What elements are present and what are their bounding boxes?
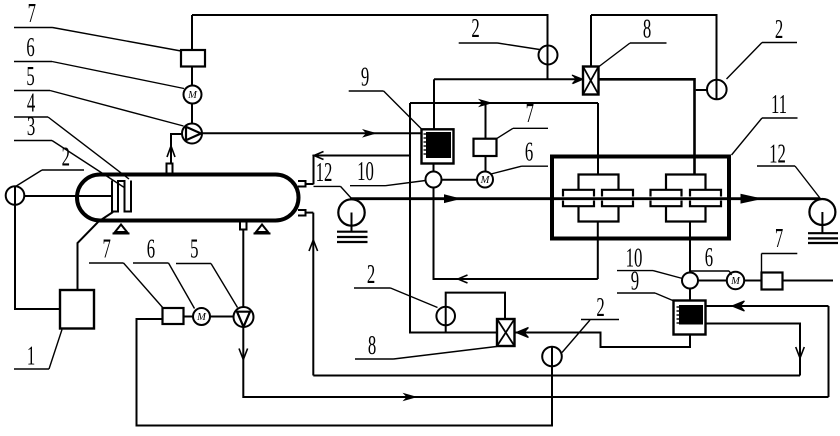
wire circle 2c to valve 8b top [446,293,505,319]
wire valve 8a to engine group 2 (hot) [599,79,695,174]
label 5 bottom [190,233,198,263]
wire tank nozzle B stub [306,212,314,214]
svg-text:2: 2 [471,13,479,43]
wire engine group2 return down to sensor 10b [689,222,691,273]
svg-text:M: M [730,276,741,287]
label 12 left [316,157,333,187]
wire stub circle 2b to hot line [696,89,707,91]
wire heater 9b bottom to valve 8b [515,333,691,348]
svg-text:7: 7 [775,223,783,253]
svg-text:2: 2 [367,259,375,289]
wire heater 9b out right [706,324,801,376]
svg-text:5: 5 [190,233,198,263]
thermometer circle 2b [707,80,727,100]
svg-text:M: M [187,90,198,101]
wire engine group1 return down [597,222,599,280]
arrow right on pump outlet line [362,129,377,138]
label 8 bottom [368,330,376,360]
svg-text:6: 6 [705,242,713,272]
dynamometer 12b [809,199,835,225]
engine group 2 bracket [666,175,706,190]
solenoid box 7b [762,273,783,290]
wire box 7a2 to meter 6a2 [485,156,487,172]
svg-text:8: 8 [643,13,651,43]
label 4 [27,87,35,117]
label 6 middle [525,136,533,166]
svg-text:9: 9 [361,61,369,91]
wire return y279 to sensor 10a [434,188,598,280]
flowmeter M 6a [184,86,202,104]
wire pump 5c outlet down [243,327,828,397]
svg-text:2: 2 [62,141,70,171]
label 2 left [62,141,70,171]
arrow up on riser [309,240,318,251]
engine cylinder 1b [602,190,633,197]
wire stub box7a top [191,15,193,50]
svg-text:2: 2 [596,292,604,322]
svg-text:7: 7 [526,98,534,128]
arrow left on y155 [314,152,324,160]
wire heater 9b in from right [706,305,829,307]
engine group 2 lower bracket [666,206,706,221]
arrow down on x800 [796,347,805,358]
engine cylinder 1a [563,190,594,197]
svg-text:3: 3 [27,111,35,141]
wire meter 6a to pump 5a [191,104,193,124]
label 11 [771,89,787,119]
svg-text:1: 1 [27,340,35,370]
svg-text:7: 7 [28,0,36,28]
svg-text:10: 10 [357,156,374,186]
shaft arrow right [741,194,764,204]
heating coil 3 inside tank [112,181,131,212]
label 9 right [631,265,639,295]
thermometer circle 2d [542,347,562,367]
wire sensor 10b to meter 6b [698,280,727,282]
engine box 11 [552,157,729,239]
tank vessel [77,175,299,221]
wire heater 9a bottom to sensor 10a [433,164,435,172]
svg-text:11: 11 [771,89,787,119]
engine group 1 lower bracket [579,206,619,221]
heater box 9a [422,129,454,163]
sensor circle 10b [682,273,698,289]
wire box 7c line left and to bottom [137,319,553,426]
svg-text:12: 12 [769,138,786,168]
flowmeter M 6b [727,272,744,289]
svg-text:9: 9 [631,265,639,295]
wire meter 6b to box 7b [744,280,761,282]
svg-text:6: 6 [147,233,155,263]
svg-text:M: M [480,175,491,186]
wire riser into tank nozzle B [312,213,314,376]
pump 5a [182,124,202,144]
tank nozzle A [298,181,306,187]
tank support foot left [115,225,127,233]
label 6 right [705,242,713,272]
label 8 top [643,13,651,43]
thermometer circle 2a [539,46,558,65]
label 3 [27,111,35,141]
flowmeter M 6c [193,308,210,325]
svg-text:6: 6 [525,136,533,166]
svg-text:2: 2 [775,14,783,44]
wire circle 2e down to box 1 [15,205,60,309]
wire tank bottom to pump 5c [242,230,244,308]
wire junction down into heater 9a top [433,79,435,129]
svg-text:7: 7 [103,233,111,263]
shaft arrow left [444,194,462,203]
label 7 middle [526,98,534,128]
thermometer circle 2e [6,186,25,205]
arrow up into pump inlet [167,146,175,157]
wire box7a to meter 6a [191,67,193,86]
label 10 left [357,156,374,186]
heater box 9b [674,301,706,335]
pump 5c [234,307,254,327]
tank bottom nozzle [240,223,247,230]
wire top line B [591,15,717,99]
wire box 7b right [783,280,834,282]
label 2 top middle [471,13,479,43]
wire valve 8a top feed [590,15,592,67]
wire sensor 10b to heater 9b [689,289,691,301]
sensor circle 10a [426,172,442,188]
label 2 top right [775,14,783,44]
tank nozzle B [298,210,306,216]
wire box 7a2 stub top [485,103,487,139]
label 7 right [775,223,783,253]
arrow right on y103 [478,99,493,108]
label 2 middle low [367,259,375,289]
wire long vertical x410 [410,103,497,333]
wire sensor 10a to meter 6a2 [442,179,478,181]
solenoid box 7a [181,50,205,67]
wire y103 manifold line [410,102,598,104]
valve 8a [583,67,599,95]
wire box 7c to meter 6c [184,316,194,318]
dynamometer 12a [338,199,364,225]
wire pump 5a inlet from tank [171,134,182,164]
arrow right on y397 [403,393,418,402]
label 6 bottom [147,233,155,263]
arrow down on pump 5c outlet [239,349,248,360]
wire pump 5a outlet to heater 9a [202,132,422,134]
arrow left into valve 8b [516,328,529,338]
label 6 [26,32,34,62]
arrow left into heater 9b [732,301,745,311]
arrow left on y279 [458,275,468,283]
valve 8b [497,319,515,346]
label 9 top [361,61,369,91]
engine cylinder 2a [651,190,682,197]
svg-text:6: 6 [26,32,34,62]
wire tank nozzle A stub [306,183,314,185]
wire meter 6c to pump 5c [210,316,234,318]
svg-text:8: 8 [368,330,376,360]
arrow right into valve 8a [572,75,583,84]
wire y79 from junction to valve 8a [434,78,579,80]
flowmeter M 6a2 [477,172,493,188]
thermometer circle 2c [436,307,455,326]
tank support foot right [256,225,268,233]
label 7 bottom [103,233,111,263]
label 7 [28,0,36,28]
solenoid box 7a2 [474,139,497,156]
wire right riser x828 [828,306,830,397]
svg-text:M: M [196,312,207,323]
svg-text:12: 12 [316,157,333,187]
engine cylinder 2b [690,190,721,197]
wire loop bottom y375 [313,375,800,377]
wire drain from coil to box 1 [78,212,114,290]
wire feed into coil [24,195,112,197]
label 5 [26,61,34,91]
wire return into tank nozzle A [314,156,411,185]
tank top nozzle [167,164,173,173]
shaft line [350,197,821,200]
box 1 [60,290,94,329]
wire top line A from box 7 to circle 2a [192,15,548,79]
wire y103 down to engine group 1 [597,103,599,175]
label 2 bottom middle [596,292,604,322]
label 12 right [769,138,786,168]
engine group 1 bracket [563,175,721,222]
label 1 [27,340,35,370]
solenoid box 7c [163,308,184,324]
label 10 right [626,243,643,273]
